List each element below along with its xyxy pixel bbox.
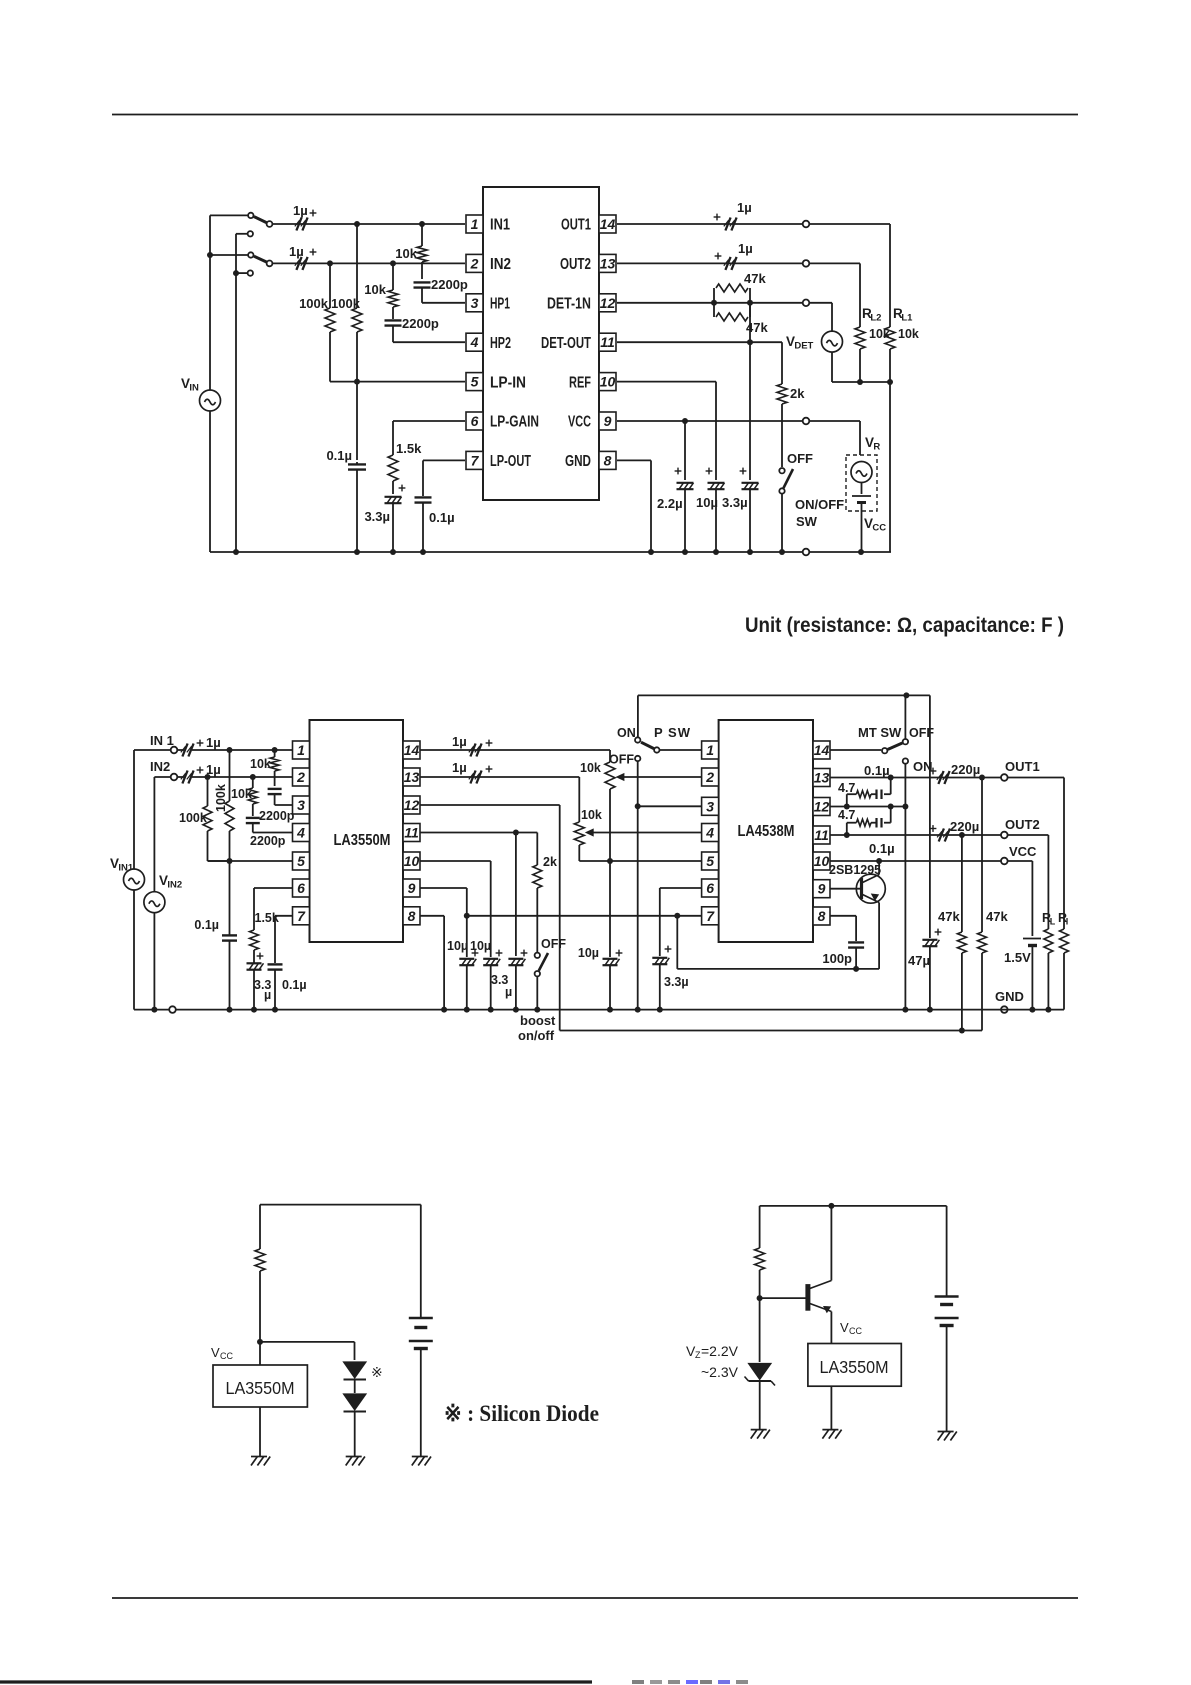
svg-text:LP-OUT: LP-OUT xyxy=(490,453,531,470)
svg-text:9: 9 xyxy=(604,413,612,429)
svg-text:47k: 47k xyxy=(986,909,1008,924)
svg-text:REF: REF xyxy=(569,374,591,391)
svg-text:0.1µ: 0.1µ xyxy=(282,978,307,992)
svg-text:7: 7 xyxy=(471,452,480,468)
svg-text:100k: 100k xyxy=(179,811,207,825)
svg-text:1µ: 1µ xyxy=(206,735,221,750)
svg-text:1: 1 xyxy=(471,216,479,232)
svg-text:OUT2: OUT2 xyxy=(1005,817,1040,832)
svg-text:IN2: IN2 xyxy=(490,256,511,273)
svg-text:47µ: 47µ xyxy=(908,953,930,968)
svg-text:1: 1 xyxy=(706,742,714,758)
svg-text:DET-1N: DET-1N xyxy=(547,296,591,313)
svg-text:ON/OFF: ON/OFF xyxy=(795,497,844,512)
svg-text:※: ※ xyxy=(371,1364,383,1380)
svg-text:14: 14 xyxy=(814,742,830,758)
svg-text:CC: CC xyxy=(872,523,886,534)
svg-text:2: 2 xyxy=(470,255,479,271)
svg-text:CC: CC xyxy=(220,1351,233,1361)
svg-text:L: L xyxy=(1050,917,1056,927)
svg-text:3.3µ: 3.3µ xyxy=(364,509,390,524)
svg-text:µ: µ xyxy=(264,988,271,1002)
svg-text:IN2: IN2 xyxy=(167,880,182,891)
svg-text:100k: 100k xyxy=(299,296,329,311)
svg-text:7: 7 xyxy=(297,908,306,924)
svg-text:=2.2V: =2.2V xyxy=(701,1343,739,1359)
svg-text:2k: 2k xyxy=(543,855,557,869)
svg-text:100k: 100k xyxy=(331,296,361,311)
svg-text:0.1µ: 0.1µ xyxy=(326,448,352,463)
svg-text:VCC: VCC xyxy=(568,414,591,431)
svg-text:13: 13 xyxy=(404,769,420,785)
svg-text:5: 5 xyxy=(471,374,479,390)
svg-text:1µ: 1µ xyxy=(452,760,467,775)
svg-text:LA3550M: LA3550M xyxy=(334,832,391,849)
svg-text:10k: 10k xyxy=(250,757,271,771)
svg-text:CC: CC xyxy=(849,1326,862,1336)
svg-text:10k: 10k xyxy=(869,327,890,341)
svg-text:1µ: 1µ xyxy=(289,244,304,259)
svg-text:10: 10 xyxy=(404,853,420,869)
svg-text:47k: 47k xyxy=(744,271,766,286)
svg-text:LA3550M: LA3550M xyxy=(226,1378,295,1398)
svg-text:IN 1: IN 1 xyxy=(150,733,174,748)
svg-text:9: 9 xyxy=(818,881,826,897)
svg-text:L2: L2 xyxy=(870,313,881,324)
svg-text:1µ: 1µ xyxy=(452,734,467,749)
svg-text:1µ: 1µ xyxy=(293,203,308,218)
svg-text:100p: 100p xyxy=(822,951,852,966)
svg-text:V: V xyxy=(211,1345,220,1360)
svg-text:OFF: OFF xyxy=(787,451,813,466)
svg-text:IN: IN xyxy=(189,383,199,394)
svg-text:0.1µ: 0.1µ xyxy=(429,510,455,525)
svg-text:P SW: P SW xyxy=(654,725,691,740)
svg-text:47k: 47k xyxy=(938,909,960,924)
svg-text:1: 1 xyxy=(297,742,305,758)
svg-text:8: 8 xyxy=(408,908,416,924)
svg-text:220µ: 220µ xyxy=(950,819,979,834)
svg-text:10: 10 xyxy=(814,853,830,869)
svg-text:1µ: 1µ xyxy=(737,200,752,215)
svg-text:Unit (resistance: Ω, capacitan: Unit (resistance: Ω, capacitance: F ) xyxy=(745,614,1064,637)
svg-text:10µ: 10µ xyxy=(447,939,468,953)
svg-text:10k: 10k xyxy=(581,808,602,822)
svg-text:13: 13 xyxy=(814,770,830,786)
svg-text:4: 4 xyxy=(470,334,479,350)
svg-text:boost: boost xyxy=(520,1013,556,1028)
svg-text:11: 11 xyxy=(404,825,419,841)
svg-text:GND: GND xyxy=(995,989,1024,1004)
svg-text:9: 9 xyxy=(408,880,416,896)
svg-text:10µ: 10µ xyxy=(470,939,491,953)
svg-text:11: 11 xyxy=(600,334,615,350)
svg-text:LP-IN: LP-IN xyxy=(490,374,526,391)
svg-text:4: 4 xyxy=(705,825,714,841)
svg-text:6: 6 xyxy=(706,880,714,896)
svg-text:1µ: 1µ xyxy=(738,241,753,256)
svg-text:IN1: IN1 xyxy=(490,217,510,234)
svg-text:12: 12 xyxy=(814,799,830,815)
svg-text:OUT1: OUT1 xyxy=(1005,759,1040,774)
svg-text:8: 8 xyxy=(604,452,612,468)
svg-text:13: 13 xyxy=(600,255,616,271)
svg-text:2200p: 2200p xyxy=(402,316,439,331)
svg-text:12: 12 xyxy=(404,797,420,813)
svg-text:VCC: VCC xyxy=(1009,844,1037,859)
svg-text:4: 4 xyxy=(296,825,305,841)
svg-text:14: 14 xyxy=(600,216,616,232)
svg-text:3: 3 xyxy=(297,797,305,813)
svg-text:3.3µ: 3.3µ xyxy=(664,975,689,989)
svg-text:10k: 10k xyxy=(395,246,417,261)
svg-text:HP2: HP2 xyxy=(490,335,511,352)
svg-text:5: 5 xyxy=(706,853,714,869)
svg-text:~2.3V: ~2.3V xyxy=(701,1364,739,1380)
svg-text:14: 14 xyxy=(404,742,420,758)
svg-text:6: 6 xyxy=(297,880,305,896)
svg-text:0.1µ: 0.1µ xyxy=(869,841,895,856)
svg-text:3.3µ: 3.3µ xyxy=(722,495,748,510)
svg-text:MT SW: MT SW xyxy=(858,725,902,740)
svg-text:10k: 10k xyxy=(898,327,919,341)
svg-text:8: 8 xyxy=(818,908,826,924)
svg-text:1.5V: 1.5V xyxy=(1004,950,1031,965)
svg-text:220µ: 220µ xyxy=(951,762,980,777)
svg-text:2200p: 2200p xyxy=(259,809,295,823)
svg-text:I: I xyxy=(1066,917,1069,927)
svg-text:10k: 10k xyxy=(364,282,386,297)
svg-text:OFF: OFF xyxy=(541,937,566,951)
svg-text:※ : Silicon Diode: ※ : Silicon Diode xyxy=(444,1401,599,1426)
svg-text:10k: 10k xyxy=(580,761,601,775)
svg-text:2200p: 2200p xyxy=(250,834,286,848)
svg-text:4.7: 4.7 xyxy=(838,808,855,822)
svg-text:0.1µ: 0.1µ xyxy=(194,918,219,932)
svg-text:5: 5 xyxy=(297,853,305,869)
svg-text:µ: µ xyxy=(505,985,512,999)
svg-text:IN2: IN2 xyxy=(150,759,170,774)
svg-text:LA4538M: LA4538M xyxy=(738,823,795,840)
svg-text:V: V xyxy=(840,1320,849,1335)
svg-text:DET-OUT: DET-OUT xyxy=(541,335,591,352)
svg-text:L1: L1 xyxy=(901,313,913,324)
svg-text:on/off: on/off xyxy=(518,1028,555,1043)
svg-text:HP1: HP1 xyxy=(490,296,510,313)
svg-text:10k: 10k xyxy=(231,787,252,801)
svg-text:1.5k: 1.5k xyxy=(396,441,422,456)
svg-text:3: 3 xyxy=(471,295,479,311)
svg-text:LP-GAIN: LP-GAIN xyxy=(490,414,539,431)
svg-text:ON: ON xyxy=(617,726,636,740)
svg-text:2k: 2k xyxy=(790,386,805,401)
svg-text:2.2µ: 2.2µ xyxy=(657,496,683,511)
svg-text:3: 3 xyxy=(706,798,714,814)
svg-text:11: 11 xyxy=(814,827,829,843)
svg-text:7: 7 xyxy=(706,908,715,924)
svg-text:10: 10 xyxy=(600,374,616,390)
svg-text:12: 12 xyxy=(600,295,616,311)
svg-text:DET: DET xyxy=(794,341,813,352)
svg-text:OFF: OFF xyxy=(609,753,634,767)
svg-text:LA3550M: LA3550M xyxy=(820,1357,889,1377)
svg-text:6: 6 xyxy=(471,413,479,429)
svg-text:4.7: 4.7 xyxy=(838,781,855,795)
svg-text:OUT2: OUT2 xyxy=(560,256,591,273)
svg-text:SW: SW xyxy=(796,514,818,529)
svg-text:R: R xyxy=(873,442,880,453)
svg-text:OUT1: OUT1 xyxy=(561,217,591,234)
svg-text:100k: 100k xyxy=(214,784,228,812)
svg-text:GND: GND xyxy=(565,453,591,470)
svg-text:2: 2 xyxy=(705,769,714,785)
svg-text:0.1µ: 0.1µ xyxy=(864,763,890,778)
svg-text:10µ: 10µ xyxy=(578,946,599,960)
svg-text:10µ: 10µ xyxy=(696,495,718,510)
svg-text:2200p: 2200p xyxy=(431,277,468,292)
svg-text:2: 2 xyxy=(296,769,305,785)
